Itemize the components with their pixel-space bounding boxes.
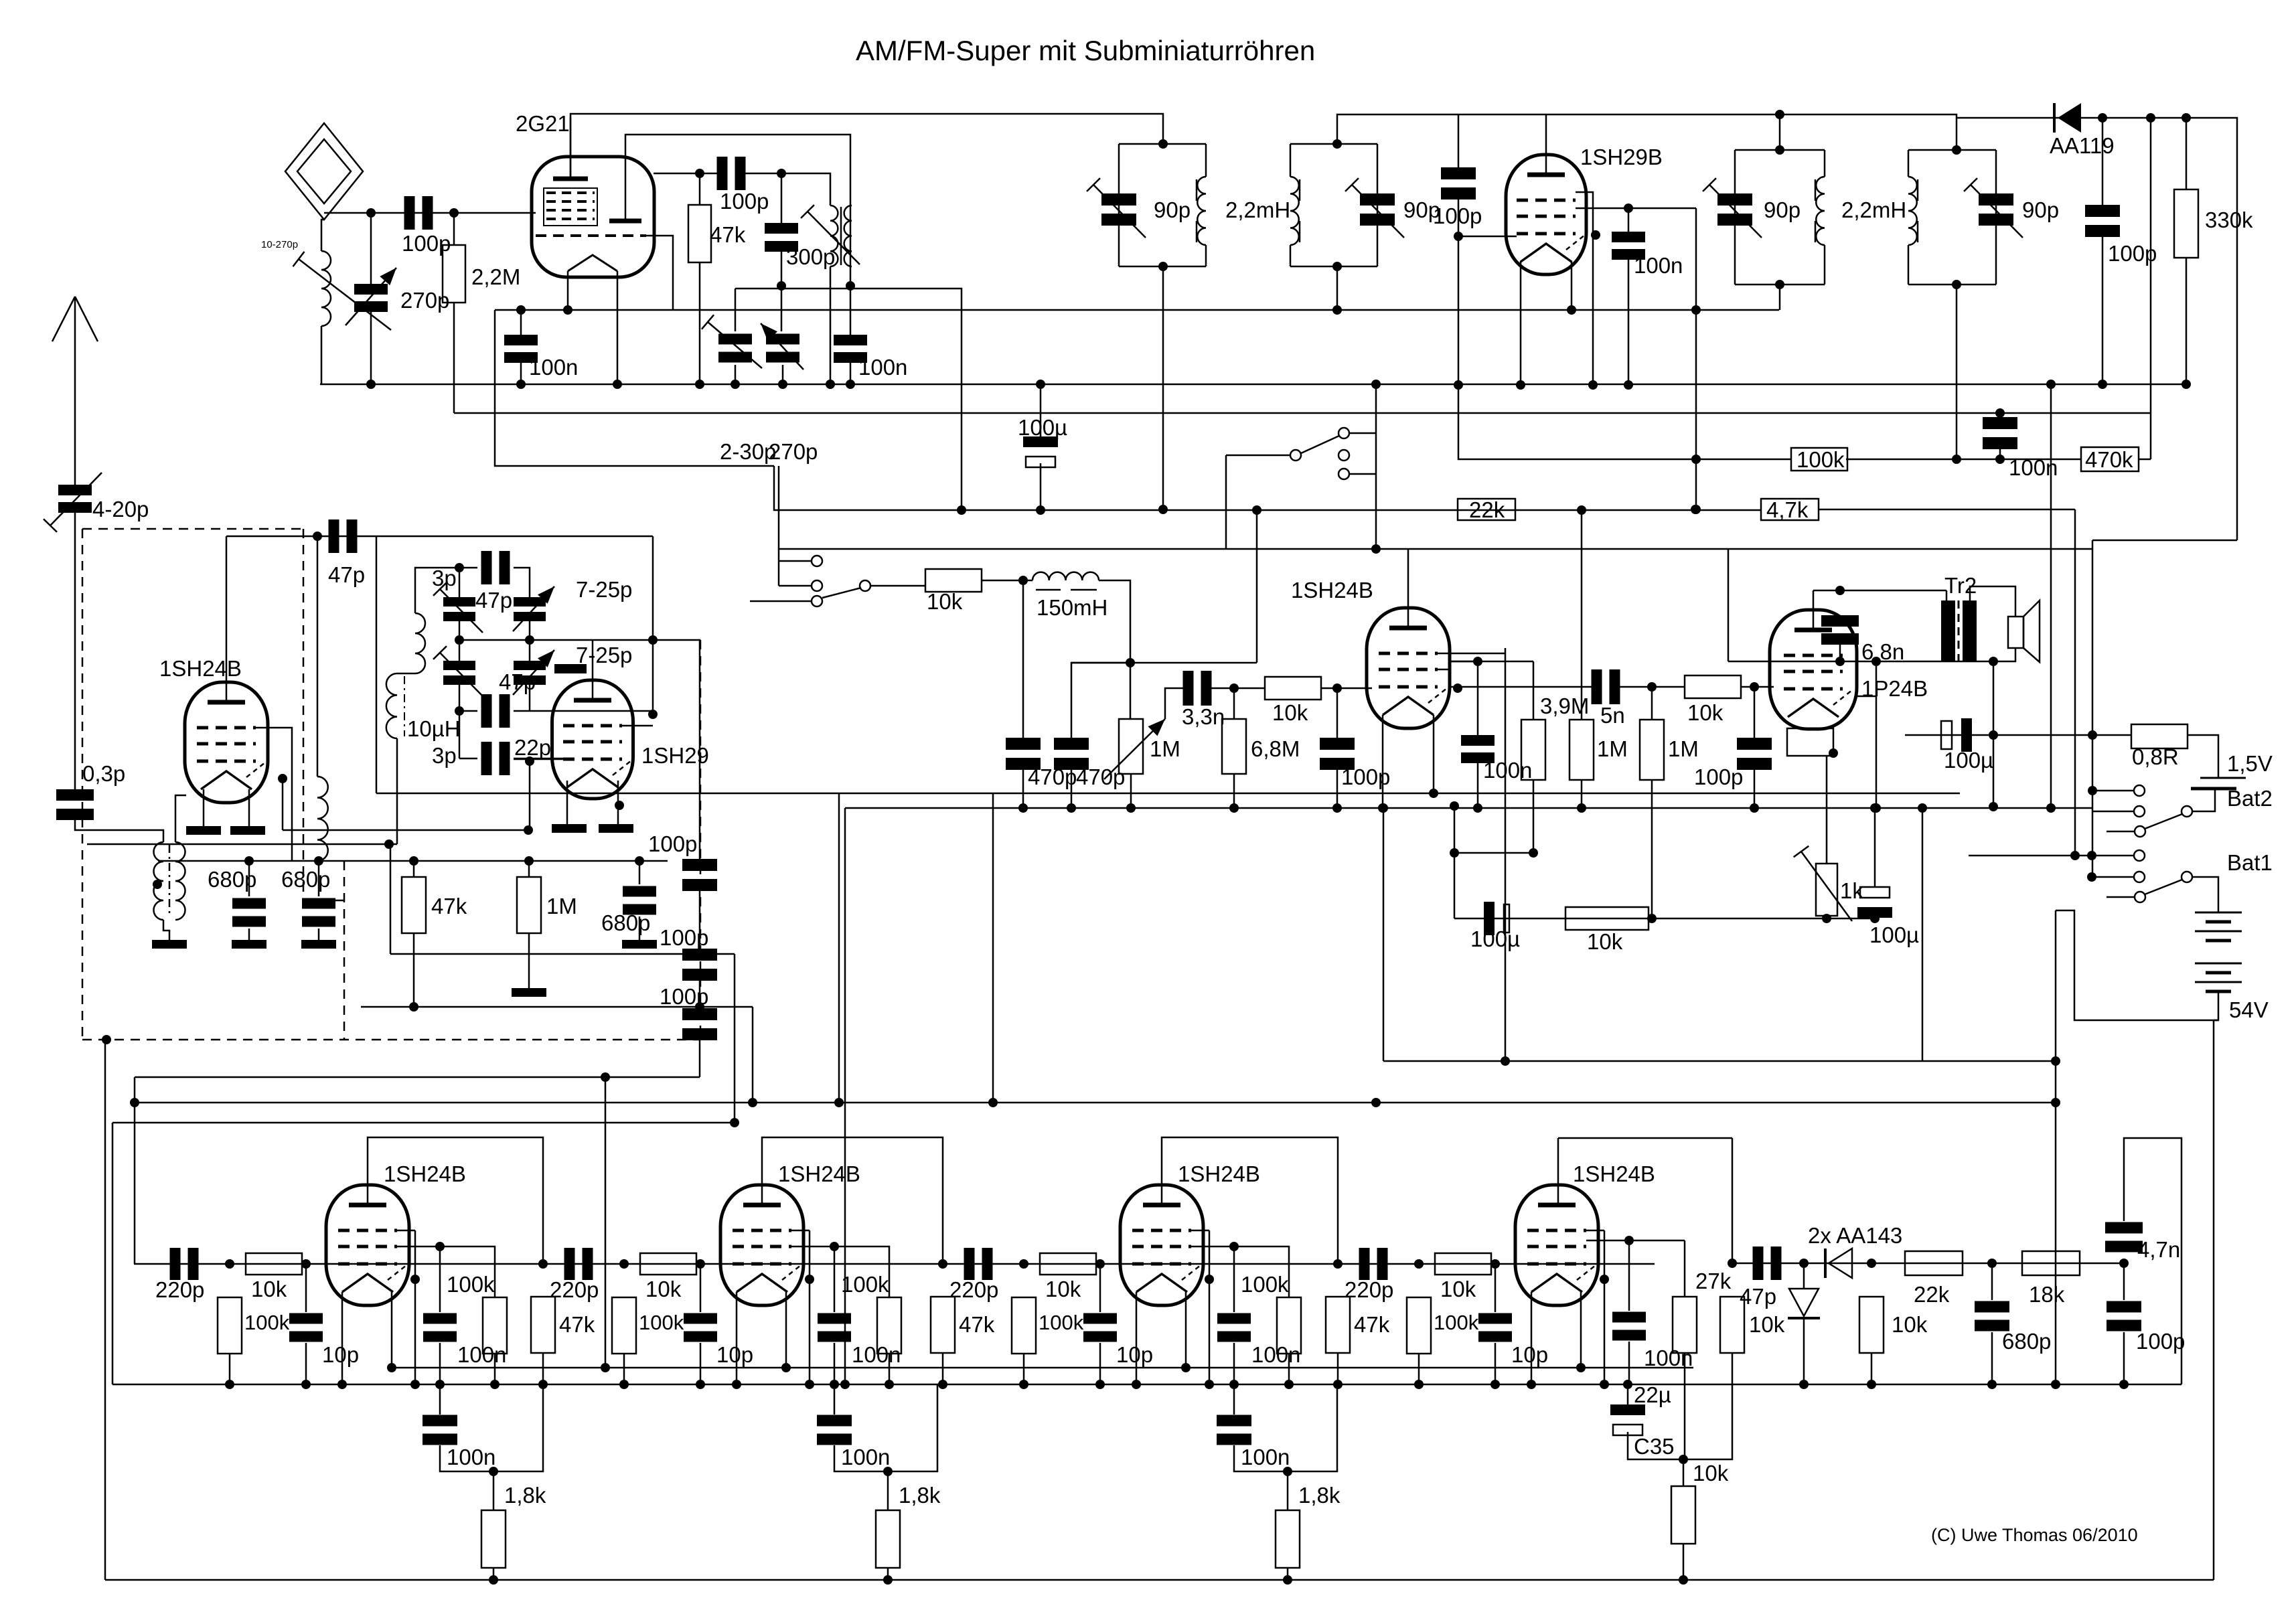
junction aa119 out b [2146, 113, 2155, 123]
capacitor 100u cathode [1484, 902, 1509, 935]
svg-text:100n: 100n [1483, 758, 1532, 783]
junction 10k/150mH [1018, 576, 1028, 585]
wire detector rail y176 [1957, 118, 2237, 540]
junction pin s2 [805, 1275, 814, 1284]
junction 300p/trimmers [777, 281, 786, 291]
junction 470p2 bus [1067, 803, 1076, 813]
junction 100p/2.2M [449, 208, 459, 218]
svg-text:330k: 330k [2205, 208, 2253, 232]
svg-text:100k: 100k [447, 1272, 495, 1297]
svg-text:100p: 100p [2136, 1329, 2185, 1354]
junction fil right s2 [781, 1363, 791, 1372]
wire 330k top [2186, 118, 2188, 189]
trimmer arrow antenna coil [293, 252, 391, 330]
svg-text:10k: 10k [1440, 1277, 1476, 1301]
loop antenna inner [297, 139, 351, 204]
wire 47k top [699, 173, 701, 205]
junction 6,8n top [1835, 586, 1845, 595]
junction 100n2 line617 [1995, 408, 2005, 418]
wire 4,7n top [2124, 1138, 2182, 1384]
ground 1M fm [512, 988, 546, 997]
junction 680p3 top [635, 856, 644, 866]
wire 1425 left up [390, 844, 392, 954]
capacitor 680p det [1975, 1301, 2009, 1332]
svg-text:1SH24B: 1SH24B [159, 656, 242, 681]
wire disc left vertical [459, 568, 461, 598]
junction disc ml [455, 635, 464, 645]
wire antenna input y318 [324, 212, 536, 214]
junction 100p det bus [2098, 380, 2107, 389]
junction pin s1 bus [410, 1380, 420, 1389]
wire 2G21 grid2 exit [646, 236, 673, 310]
battery Bat2 1,5V [2191, 778, 2246, 789]
svg-text:Tr2: Tr2 [1944, 573, 1977, 598]
junction cath s1 [489, 1467, 498, 1476]
svg-text:47p: 47p [475, 588, 512, 613]
wire tank T3 coil top [1824, 150, 1826, 177]
svg-text:1SH29B: 1SH29B [1580, 145, 1663, 169]
resistor 1,8k s2 [876, 1510, 900, 1568]
wire 100p det top [2102, 118, 2104, 208]
resistor 470k box [2081, 447, 2139, 471]
tube 1SH24B fm filament [201, 771, 252, 789]
wire line686 right [1846, 459, 2081, 461]
svg-text:10k: 10k [927, 589, 963, 614]
wire bat2 minus [2192, 789, 2215, 811]
wire 7-25p b bottom [529, 684, 531, 711]
wire 10p s1 bottom [305, 1343, 307, 1384]
wire t5 screen exit [1438, 661, 1478, 669]
capacitor 100p antenna [404, 196, 433, 230]
resistor 47k anode s1 [531, 1297, 555, 1353]
inductor 150mH [1032, 572, 1099, 580]
svg-text:47k: 47k [431, 894, 467, 918]
capacitor 47p disc a [481, 551, 510, 584]
wire 1SH29B anode lead [1545, 114, 1547, 175]
wire tr2 left top [1946, 590, 1948, 600]
tube 1SH24B s3 grid2 [1132, 1245, 1191, 1249]
wire chain mid1 [699, 890, 701, 949]
wire 2066 drop [1383, 808, 1385, 1061]
wire 10p s3 top [1099, 1264, 1101, 1312]
capacitor 100u filter [1941, 718, 1972, 752]
junction 100p audio bus [1332, 803, 1342, 813]
svg-text:10µH: 10µH [407, 716, 461, 741]
junction t4 pin [278, 774, 287, 783]
wire 3,9M top [1533, 661, 1535, 720]
junction 680p det bus [1987, 1380, 1997, 1389]
wire 100u filter line [1905, 734, 2131, 736]
wire 680p3 gnd lead [639, 916, 641, 940]
wire disc w3 [459, 710, 477, 712]
wire 2G21 filament left [567, 271, 569, 310]
osc coil core line [840, 207, 842, 265]
resistor 1,8k s3 [1276, 1510, 1300, 1568]
wire 47k s1 bottom [542, 1353, 544, 1384]
wire 100k screen s3 bottom [1288, 1354, 1290, 1384]
tube 1P24B grid3 dashed lead [1833, 690, 1852, 705]
junction cathode box [1829, 748, 1838, 758]
tube 1SH24B s1 grid1 [338, 1229, 397, 1232]
svg-text:10p: 10p [1116, 1342, 1153, 1367]
svg-text:1SH24B: 1SH24B [1291, 578, 1373, 602]
wire 100n s4 lead [1628, 1240, 1630, 1311]
junction 10p node s1 [301, 1259, 311, 1269]
wire fil right s1 [391, 1292, 393, 1368]
junction 47k s2 bus [938, 1380, 947, 1389]
wire 100n audio top [1477, 661, 1479, 735]
wire 1M a top [1581, 687, 1583, 720]
resistor 10k s3 [1040, 1253, 1096, 1275]
junction 10p s2 bus [696, 1380, 705, 1389]
capacitor 100n agc [1983, 417, 2017, 449]
resistor 3,9M [1521, 720, 1545, 780]
capacitor 5n [1592, 669, 1620, 704]
capacitor 100u smoothing [1023, 436, 1058, 467]
wire 4,7k drop x3099 [2074, 509, 2076, 856]
switch contact b4 [812, 596, 822, 607]
svg-text:6,8n: 6,8n [1861, 639, 1904, 664]
junction 1M b cath [1647, 914, 1657, 923]
wire 10p s3 bottom [1099, 1343, 1101, 1384]
wire sw bat1 stub1 [2092, 855, 2134, 857]
switch contact a3 [1338, 450, 1349, 461]
tube 1SH24B s4 grid3 [1527, 1263, 1586, 1266]
capacitor 100n audio [1461, 735, 1495, 763]
wire tank T4 coil top [1908, 150, 1910, 177]
tube 1SH24B s2 filament [737, 1274, 787, 1292]
wire screen row s1 [397, 1246, 440, 1248]
tube 1SH24B audio grid3 dashed lead [1428, 688, 1447, 703]
wire tank T3 top [1735, 149, 1825, 151]
junction 1k row [1822, 914, 1831, 923]
wire anode rail B y171 [1337, 114, 1957, 150]
wire screen row s3 [1191, 1246, 1234, 1248]
junction screen s1 [435, 1242, 445, 1251]
wire disc left down [459, 711, 461, 758]
svg-text:22µ: 22µ [1634, 1382, 1671, 1407]
wire switch b feeds vertical [778, 549, 780, 586]
junction tank1 top [1158, 139, 1168, 149]
wire 680p2 lead [318, 861, 320, 896]
wire tank T2 coil bottom [1290, 245, 1292, 266]
wire line801 [226, 536, 653, 538]
wire 100n screen s1 bottom [439, 1343, 441, 1384]
resistor 47k fm [402, 877, 426, 933]
junction 1M2 top [524, 856, 534, 866]
svg-text:10k: 10k [251, 1277, 287, 1301]
junction 3063 bus top [2046, 380, 2056, 389]
junction disc mid [525, 635, 534, 645]
wire disc primary top [415, 568, 459, 613]
wire 2G21 electrode2 lead [625, 135, 850, 286]
tube 1SH24B s4 envelope [1515, 1185, 1598, 1305]
wire anode4 drop [1732, 1138, 1734, 1263]
trimmer arrow 1k [1794, 846, 1852, 921]
wire line1261 [87, 843, 397, 846]
wire tank3 bottom [1779, 285, 1781, 310]
wire cathode row 1360 [1454, 918, 1875, 920]
switch bat2 c3 [2135, 826, 2145, 837]
speaker [2008, 600, 2040, 662]
wire tank T2 coil top [1290, 144, 1292, 177]
wire switch a1 [1349, 432, 1376, 434]
svg-text:90p: 90p [1764, 197, 1801, 222]
wire antenna coil to bus [321, 326, 323, 384]
svg-text:2,2M: 2,2M [471, 264, 520, 289]
capacitor 100p audio [1320, 738, 1355, 770]
svg-text:4,7n: 4,7n [2137, 1237, 2180, 1262]
capacitor 100n cathode s2 [817, 1415, 852, 1445]
junction 2802 bus [1871, 803, 1881, 813]
resistor 1M a [1570, 720, 1594, 780]
wire 10k3 to 1p24b [1741, 686, 1774, 688]
wire t5 fil left [1382, 715, 1384, 808]
wire bottom strip line1647 [135, 1102, 2056, 1104]
capacitor 470p a [1006, 738, 1041, 770]
resistor 10k c35 [1671, 1486, 1695, 1544]
wire 680p det top [1991, 1263, 1993, 1300]
resistor 100k grid s3 [1012, 1297, 1036, 1354]
junction 1,8k s1 rail [489, 1575, 498, 1585]
wire line463 [495, 309, 1779, 311]
junction t5 pin [1453, 683, 1462, 693]
wire bat1 minus [2056, 910, 2218, 1020]
wire 100n mid top [850, 286, 852, 335]
wire line1504 [361, 1006, 753, 1008]
wire cath 100n s2 [834, 1384, 836, 1415]
junction tank2 bottom [1332, 262, 1342, 271]
wire 3,9M bottom [1533, 780, 1535, 853]
junction 470p1 bus [1018, 803, 1028, 813]
junction 10uH 1261 [384, 839, 394, 849]
wire bat1 to frame [2214, 1020, 2218, 1022]
wire t4 pin down [282, 779, 284, 830]
wire 100p audio bottom [1336, 765, 1338, 808]
wire switch b3 out [870, 585, 925, 587]
tube 1SH29 grid3 dashed lead [613, 760, 631, 775]
svg-text:1SH24B: 1SH24B [1573, 1161, 1655, 1186]
dashed box divider [303, 529, 305, 900]
svg-text:2x AA143: 2x AA143 [1808, 1223, 1902, 1248]
tube 2G21 anode [553, 177, 588, 181]
junction shunt diode bus [1799, 1380, 1809, 1389]
wire 10k det bottom [1871, 1353, 1873, 1384]
junction 0,8R feed [2088, 730, 2097, 740]
capacitor 100p if coupling [1441, 167, 1476, 199]
switch bat2 c1 [2134, 785, 2145, 796]
wire 3,3n to 10k [1209, 688, 1265, 690]
tube 2G21 envelope [532, 157, 654, 277]
wire s4 screen row [1586, 1240, 1685, 1242]
tank T1 coil core marks [1196, 179, 1198, 242]
junction 100u top bus [1036, 380, 1045, 389]
junction 47k top [695, 169, 704, 178]
wire tank T1 cap side [1118, 144, 1120, 266]
tube 1SH24B s3 anode [1143, 1203, 1180, 1208]
capacitor 100p af [2107, 1301, 2141, 1332]
junction 988 right [1871, 657, 1881, 666]
wire t5 grid1 row [1438, 653, 1505, 655]
wire 100n screen bottom [1628, 257, 1630, 385]
wire osc coil left bottom [830, 266, 832, 384]
capacitor 0,3p [56, 789, 94, 820]
resistor 10k audio [925, 569, 982, 592]
tube 1P24B grid1 [1784, 654, 1843, 657]
switch contact a2 [1290, 450, 1301, 461]
junction osc coil bus [826, 380, 835, 389]
wire 10p s2 top [700, 1264, 702, 1312]
junction 6,8n 988 [1835, 657, 1845, 666]
junction 1M a bus [1577, 803, 1586, 813]
capacitor 680p b [302, 898, 335, 927]
svg-text:100p: 100p [648, 831, 697, 856]
wire grid1 row ext s3 [1191, 1230, 1209, 1232]
wire tank T4 bottom [1908, 284, 1996, 286]
svg-text:100p: 100p [2108, 241, 2157, 266]
resistor 4,7k box [1761, 499, 1819, 520]
wire 100n2 bottom [1999, 448, 2001, 459]
wire 10k to coil [982, 580, 1032, 582]
capacitor 100u output [1857, 887, 1892, 918]
trimmer capacitor 7-25p a [514, 597, 546, 621]
wire osc inj top [317, 536, 319, 777]
capacitor 10p s2 [684, 1313, 717, 1342]
inductor tank T3 coil [1816, 177, 1825, 245]
junction pin s4 bus [1600, 1380, 1609, 1389]
junction dashed box bottom left [102, 1035, 111, 1044]
svg-text:680p: 680p [2002, 1329, 2051, 1354]
wire pin s3 down [1209, 1230, 1211, 1384]
switch lever bat1 [2145, 880, 2182, 894]
wire 1sh29 grid1 exit [622, 725, 653, 727]
wire 470p2 bottom [1071, 765, 1073, 808]
wire fil right s3 [1185, 1292, 1187, 1368]
tube 1SH29B grid3 [1517, 232, 1576, 236]
wire 2871 drop [1922, 808, 1924, 1061]
junction 1,8k s3 rail [1283, 1575, 1292, 1585]
junction 1SH29B fil left [1516, 380, 1525, 390]
dashed box mid2 [343, 861, 346, 1040]
resistor 10k det [1859, 1297, 1884, 1353]
tube 1SH24B s1 envelope [326, 1185, 409, 1305]
junction 1097 1677 [730, 1118, 739, 1127]
wire transformer bottom [163, 920, 169, 940]
resistor 100k screen s2 [877, 1297, 901, 1354]
tube 1SH24B s2 grid2 [733, 1245, 791, 1249]
wire drop x1483 [992, 793, 994, 1103]
junction screen761 [1691, 505, 1701, 514]
junction tank3 bottom [1775, 280, 1784, 289]
wire 1425 to 1677 [734, 954, 736, 1123]
junction cath s3 [1283, 1467, 1292, 1476]
wire 27k down [1684, 1353, 1686, 1459]
tube 1SH24B s2 grid3 [733, 1263, 791, 1266]
wire 100p out top [1754, 687, 1756, 740]
variable arrow 270p osc [761, 323, 803, 370]
wire 300p bottom [781, 250, 783, 331]
junction 1253 1647 [834, 1098, 844, 1107]
wire 10k2 to grid [1321, 688, 1372, 690]
junction grid node s4 [1414, 1259, 1424, 1269]
junction 2977 1098 [1989, 730, 1998, 740]
wire 22p out [514, 758, 566, 760]
junction grid1 bus [1588, 380, 1598, 390]
svg-text:6,8M: 6,8M [1251, 736, 1300, 761]
svg-text:10k: 10k [1045, 1277, 1081, 1301]
svg-text:220p: 220p [1345, 1277, 1393, 1302]
svg-text:680p: 680p [208, 867, 256, 892]
variable capacitor 90p tank T3 [1717, 193, 1752, 226]
wire b-plus drop x2581 [1728, 549, 1730, 661]
junction x2178 bus [1454, 380, 1463, 390]
svg-text:47k: 47k [1354, 1312, 1390, 1337]
resistor 47k anode s2 [931, 1297, 955, 1353]
wire 100n audio bottom [1477, 760, 1479, 808]
trimmer arrow 2-30p [702, 315, 762, 368]
wire screen drop x2533 [1695, 208, 1697, 509]
svg-text:100k: 100k [1796, 447, 1845, 472]
wire 1sh29 fil left [566, 781, 568, 824]
svg-text:10k: 10k [1693, 1461, 1729, 1485]
wire cath node s3 [1234, 1384, 1337, 1471]
junction 470p2 node [1126, 658, 1135, 667]
wire 5n wire t5 grid [1449, 686, 1550, 688]
resistor 1M fm [517, 877, 541, 933]
wire 0,8R out [2188, 735, 2218, 778]
junction 2871 bus [1918, 803, 1927, 813]
wire 680p det bottom [1991, 1332, 1993, 1384]
junction chain 1504 [695, 1002, 704, 1012]
svg-text:1,8k: 1,8k [899, 1483, 941, 1508]
wire right vertical 470k [2150, 118, 2152, 459]
svg-text:90p: 90p [1154, 197, 1191, 222]
junction cath s2 [883, 1467, 893, 1476]
junction disc tl [455, 563, 464, 572]
variable capacitor 90p tank T1 [1101, 193, 1136, 226]
tube 1SH24B s1 grid3 [338, 1263, 397, 1266]
junction pin s4 [1600, 1275, 1609, 1284]
svg-text:100µ: 100µ [1944, 748, 1993, 773]
svg-text:100n: 100n [1251, 1342, 1300, 1367]
junction 680p1 top [244, 856, 254, 866]
trimmer arrow 90p tank T1 [1087, 178, 1146, 238]
svg-text:1SH24B: 1SH24B [384, 1161, 466, 1186]
inductor tank T1 coil [1197, 177, 1206, 245]
junction 1sh29 pin [615, 801, 624, 810]
wire tank T1 coil bottom [1205, 245, 1207, 266]
wire disc w1 [459, 567, 477, 569]
resistor 10k s4 [1720, 1297, 1744, 1353]
switch contact b3 [860, 580, 870, 591]
wire cathode to pot [1826, 756, 1828, 864]
junction 1SH29B pin [1591, 230, 1600, 240]
tube 1P24B anode [1794, 628, 1832, 633]
wire 7-25p a bottom [529, 621, 531, 640]
capacitor 10p s1 [289, 1313, 323, 1342]
junction tank2 top [1332, 139, 1342, 149]
trimmer arrow osc coil [801, 205, 860, 264]
wire screen 100n s2 [834, 1246, 836, 1312]
switch lever bat2 [2145, 814, 2182, 829]
ground bar disc [554, 664, 587, 673]
junction 330k rail [2182, 113, 2191, 123]
resistor 100k grid s4 [1407, 1297, 1431, 1354]
wire 1,8k s2 top [887, 1471, 889, 1510]
junction grid 1p24b [1750, 682, 1759, 692]
variable arrow 7-25p b [513, 650, 554, 695]
junction aa119 out a [2098, 113, 2107, 123]
